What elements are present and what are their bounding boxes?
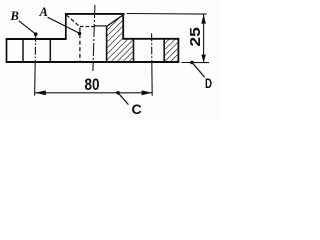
leader dot D on extension line bbox=[190, 61, 194, 65]
leader line B bbox=[19, 21, 36, 34]
center hole right wall (section) bbox=[106, 26, 108, 62]
extension line left (80 dim) bbox=[34, 62, 37, 96]
arrowhead 25 bottom bbox=[201, 55, 206, 63]
counterbore step edge solid (right of CL) bbox=[94, 25, 107, 27]
main center line bbox=[93, 5, 95, 71]
flange bottom line bbox=[6, 61, 180, 63]
arrowhead 25 top bbox=[201, 14, 206, 23]
dimension line 25 bbox=[203, 14, 205, 62]
boss right edge bbox=[122, 13, 124, 39]
leader line A bbox=[48, 17, 80, 33]
arrowhead 80 right bbox=[142, 90, 153, 95]
leader line C bbox=[118, 93, 128, 104]
extension line top (25 dim) bbox=[127, 13, 207, 16]
arrowhead 80 left bbox=[35, 90, 46, 95]
svg-text:C: C bbox=[132, 101, 142, 117]
leader dot B on bolt center line bbox=[34, 32, 38, 36]
svg-text:D: D bbox=[205, 75, 212, 91]
bolt hole left: left wall bbox=[22, 40, 24, 62]
svg-text:25: 25 bbox=[187, 27, 204, 47]
flange right edge bbox=[177, 38, 179, 63]
bolt hole left: right wall bbox=[49, 40, 51, 62]
boss left edge bbox=[65, 13, 67, 39]
boss top line bbox=[65, 13, 125, 15]
leader dot A on hidden hole wall bbox=[78, 32, 82, 36]
svg-text:B: B bbox=[10, 9, 19, 23]
flange top line left bbox=[6, 38, 67, 40]
svg-text:A: A bbox=[39, 5, 48, 19]
leader dot C on dim line bbox=[116, 91, 120, 95]
bolt hole right center line bbox=[151, 33, 153, 62]
hidden hole wall left bbox=[79, 28, 81, 62]
section hatch region: flange block 2 bbox=[164, 39, 178, 62]
leader line D bbox=[192, 63, 204, 77]
hidden cone edge left bbox=[66, 15, 80, 27]
extension line bottom (25 dim) bbox=[182, 62, 210, 64]
cone slant (section cut edge) bbox=[107, 14, 124, 26]
flange top line right bbox=[123, 38, 180, 40]
bolt hole right: left wall bbox=[133, 39, 135, 61]
flange left edge bbox=[6, 38, 8, 63]
counterbore step edge hidden (left of CL) bbox=[80, 26, 94, 28]
dimension line 80 bbox=[35, 92, 152, 94]
bolt hole right: right wall bbox=[163, 39, 165, 61]
section hatch region: boss cone + boss wall + flange block 1 bbox=[107, 14, 134, 62]
extension line right (80 dim) bbox=[151, 62, 153, 96]
svg-text:80: 80 bbox=[85, 76, 100, 94]
bolt hole left center line bbox=[34, 34, 37, 62]
